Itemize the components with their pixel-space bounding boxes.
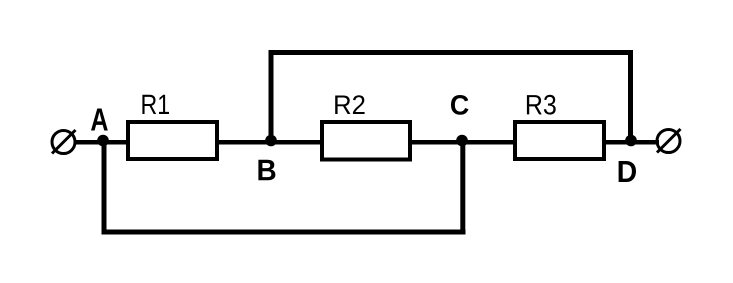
wire: bottom bypass horizontal A to C (102, 230, 466, 235)
node B junction dot (265, 135, 277, 147)
resistor R3 (515, 122, 604, 159)
terminal left (52, 130, 76, 154)
wire: top bypass horizontal B to D (269, 50, 633, 55)
wire: vertical from node B up to top bypass (269, 50, 274, 142)
wire: vertical from top bypass down to node D (628, 50, 633, 142)
node C junction dot (456, 135, 468, 147)
wire: R1 to R2 (through node B) (215, 140, 323, 145)
node A junction dot (97, 135, 109, 147)
node label D (619, 161, 636, 182)
node D junction dot (625, 135, 637, 147)
label R3 (527, 95, 556, 115)
wire: R3 to right terminal (through node D) (603, 140, 659, 145)
resistor R1 (128, 122, 217, 159)
resistor R2 (322, 122, 410, 160)
node label C (451, 95, 468, 115)
wire: vertical from node A down to bottom bypass (102, 142, 107, 235)
wire: left terminal to R1 (through node A) (74, 140, 130, 145)
node label B (258, 160, 275, 180)
node label A (91, 108, 108, 130)
label R2 (335, 95, 364, 114)
terminal right (657, 129, 681, 153)
label R1 (142, 95, 169, 114)
wire: vertical from bottom bypass up to node C (460, 142, 465, 235)
wire: R2 to R3 (through node C) (409, 140, 516, 145)
